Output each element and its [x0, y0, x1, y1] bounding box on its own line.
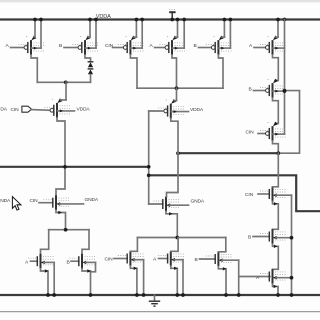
net label VDDA M9 — [77, 107, 91, 113]
net label GNDA clipped — [0, 198, 11, 204]
nmos M13 rail dots — [46, 293, 56, 297]
junction dots gate line — [147, 165, 151, 177]
wire B drain riser — [82, 230, 89, 254]
wire A drain riser — [41, 230, 49, 254]
pmos M9 pass — [45, 98, 75, 117]
svg-text:B: B — [59, 43, 62, 49]
nmos M15 — [114, 238, 144, 296]
wire M3 drain — [130, 55, 137, 88]
nmos M16 — [158, 238, 184, 296]
GNDA ground rail — [0, 294, 320, 296]
wire bracket right — [279, 91, 300, 154]
nmos M16 rail dots — [175, 293, 184, 297]
pmos M1 rail dots — [33, 18, 43, 22]
svg-text:A: A — [249, 43, 253, 49]
wire M1 drain — [31, 55, 37, 82]
nmos M19 — [253, 229, 292, 244]
node wire M3-M4-M5 join — [137, 86, 223, 90]
pmos M3 rail dots — [135, 18, 145, 22]
input pin CIN symbol — [22, 106, 32, 112]
svg-text:A: A — [153, 257, 157, 263]
svg-text:NDA: NDA — [0, 198, 11, 204]
svg-text:GNDA: GNDA — [191, 198, 205, 204]
pmos M7 bulk dot — [283, 89, 287, 93]
wire D2 to node — [90, 75, 92, 83]
pmos M2 — [64, 20, 99, 55]
svg-text:B: B — [194, 43, 197, 49]
nmos M19 bulk dot — [290, 236, 294, 240]
svg-text:A: A — [25, 259, 29, 265]
svg-text:GNDA: GNDA — [85, 197, 99, 203]
nmos M18 gate label CIN — [245, 192, 254, 198]
svg-text:CIN: CIN — [105, 257, 114, 263]
nmos M15 gate label CIN — [105, 257, 114, 263]
svg-text:CIN: CIN — [245, 192, 254, 198]
nmos M11 pass — [149, 197, 189, 212]
svg-text:VDDA: VDDA — [190, 107, 204, 113]
svg-text:B: B — [67, 259, 70, 265]
svg-text:VDDA: VDDA — [77, 107, 91, 113]
pmos M1 — [11, 20, 45, 55]
nmos M16 gate label A — [153, 257, 157, 263]
stack rail dots — [276, 293, 293, 297]
pmos M6 rail dots — [276, 18, 286, 22]
frame top band — [0, 0, 320, 2]
nmos M20 gate label A — [256, 275, 260, 281]
wire M11 drain — [167, 153, 179, 197]
net label GNDA M12 — [85, 197, 99, 203]
mouse cursor — [12, 197, 21, 211]
pmos M5 — [199, 20, 232, 55]
node dots sum wire — [176, 89, 286, 155]
pmos M6 — [254, 20, 286, 55]
nmos M19 gate label B — [248, 235, 251, 241]
nmos M18 — [258, 187, 292, 202]
wire M18-M19 chain — [273, 201, 279, 229]
pmos M6 gate label A — [249, 43, 253, 49]
pmos M4 gate label A — [150, 43, 154, 49]
ground symbol — [149, 295, 160, 306]
VDDA rail label — [96, 14, 111, 20]
net label GNDA M11 — [191, 198, 205, 204]
pmos M8 — [258, 123, 286, 141]
wire M9 drain — [56, 118, 65, 196]
junction dot carry-left — [63, 165, 67, 169]
frame bottom line — [0, 311, 320, 313]
pmos M1 gate label A — [6, 43, 10, 49]
svg-text:A: A — [150, 43, 154, 49]
svg-text:B: B — [195, 257, 198, 263]
wire M19-M20 chain — [273, 244, 279, 269]
pmos M2 gate label B — [59, 43, 62, 49]
wire M2 drain — [85, 55, 91, 62]
nmos M17 — [200, 238, 239, 296]
pmos M7 — [254, 80, 287, 98]
wire M20 source — [273, 284, 279, 295]
net label VDDA clipped — [0, 107, 7, 113]
nmos M17 gate label B — [195, 257, 198, 263]
pwell bulk line — [291, 195, 293, 295]
svg-text:CIN: CIN — [246, 130, 255, 136]
power symbol VDD stub — [169, 10, 175, 22]
svg-text:B: B — [248, 235, 251, 241]
diode D2 — [88, 69, 94, 74]
wire M7-M8 chain — [273, 98, 279, 126]
input pin CIN label — [11, 107, 20, 113]
pmos M7 gate label B — [249, 87, 252, 93]
wire M4 drain — [172, 55, 177, 88]
diode D1 — [88, 62, 94, 67]
pmos M4 — [155, 20, 186, 55]
nmos M20 gate wire — [240, 276, 270, 278]
nmos M17 rail dots — [224, 293, 240, 297]
svg-text:VDDA: VDDA — [96, 14, 111, 20]
node wire trio bus — [137, 236, 225, 240]
wire pin to gate — [32, 109, 50, 112]
nmos M13 gate label A — [25, 259, 29, 265]
nwell bulk line — [284, 20, 286, 135]
nmos M14 gate label B — [67, 259, 70, 265]
pmos M5 gate label B — [194, 43, 197, 49]
wire M10 drain — [171, 118, 178, 153]
node wire carry right — [149, 175, 320, 211]
nmos M12 gate label CIN — [30, 198, 39, 204]
nmos M20 — [260, 269, 292, 284]
nmos M12 pass — [39, 195, 84, 210]
wire M11 source — [166, 211, 177, 237]
nmos M14 — [70, 254, 96, 295]
svg-text:DA: DA — [0, 107, 7, 113]
pmos M2 rail dots — [88, 18, 98, 22]
pmos M8 gate label CIN — [246, 130, 255, 136]
pmos M10 pass — [158, 99, 188, 118]
pmos M3 gate label CIN — [105, 43, 114, 49]
pmos M4 rail dots — [176, 18, 186, 22]
node wire pair bus — [49, 228, 89, 232]
wire M8 drain — [273, 141, 279, 153]
svg-text:B: B — [249, 87, 252, 93]
svg-text:A: A — [6, 43, 10, 49]
nmos M14 rail dot — [89, 293, 93, 297]
nmos M15 rail dots — [135, 293, 145, 297]
pmos M3 — [113, 20, 144, 55]
node wire M1-M2 join — [37, 80, 90, 84]
node wire carry left — [0, 166, 149, 168]
net label VDDA M10 — [190, 107, 204, 113]
VDDA power rail — [0, 18, 320, 20]
wire M10 source riser — [176, 88, 178, 100]
pmos M5 rail dots — [223, 18, 233, 22]
nmos M20 bulk dot — [290, 276, 294, 280]
wire M18 drain — [273, 153, 279, 187]
wire M9 source riser — [65, 82, 67, 100]
svg-text:CIN: CIN — [11, 107, 20, 113]
node wire sum — [178, 152, 279, 154]
wire M12 source — [56, 210, 66, 230]
wire M5 drain — [218, 55, 223, 88]
wire M10 gate to M11 gate — [149, 111, 164, 204]
nmos M13 — [28, 254, 54, 295]
wire M6-M7 chain — [273, 55, 279, 83]
svg-text:CIN: CIN — [30, 198, 39, 204]
